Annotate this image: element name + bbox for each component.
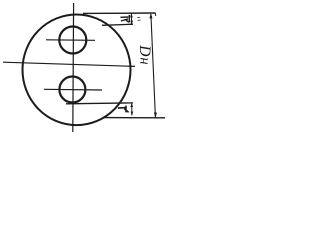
arrowhead t top up <box>130 13 133 17</box>
stray scan dashes right of t top label <box>137 17 140 20</box>
extension line bottom tangent of shell <box>103 117 165 119</box>
bottom hole horizontal centerline <box>44 88 102 91</box>
tube hole circle bottom <box>59 77 85 103</box>
dimension line t bottom <box>131 103 133 116</box>
arrowhead Dн top <box>149 13 152 18</box>
svg-text:Dн: Dн <box>136 44 153 64</box>
arrowhead Dн bottom <box>154 113 157 118</box>
extension line bottom tangent of bottom hole <box>66 102 133 105</box>
hook at end of top extension line <box>154 13 156 16</box>
dimension line t top <box>130 13 132 24</box>
horizontal centerline of shell <box>3 62 135 66</box>
extension line top tangent of shell <box>83 12 156 14</box>
dimension line Dн <box>151 14 156 117</box>
outer shell circle Dн <box>23 15 131 126</box>
tube hole circle top <box>59 27 86 54</box>
arrowhead t bottom down <box>131 112 134 116</box>
extension line top tangent of top hole <box>102 24 133 25</box>
top hole horizontal centerline <box>46 39 95 42</box>
arrowhead t top down <box>130 21 133 25</box>
label t bottom (rotated t glyph) <box>118 106 129 113</box>
vertical centerline <box>72 3 75 132</box>
label t top (rotated t glyph) <box>120 15 129 22</box>
arrowhead t bottom up <box>130 103 133 107</box>
